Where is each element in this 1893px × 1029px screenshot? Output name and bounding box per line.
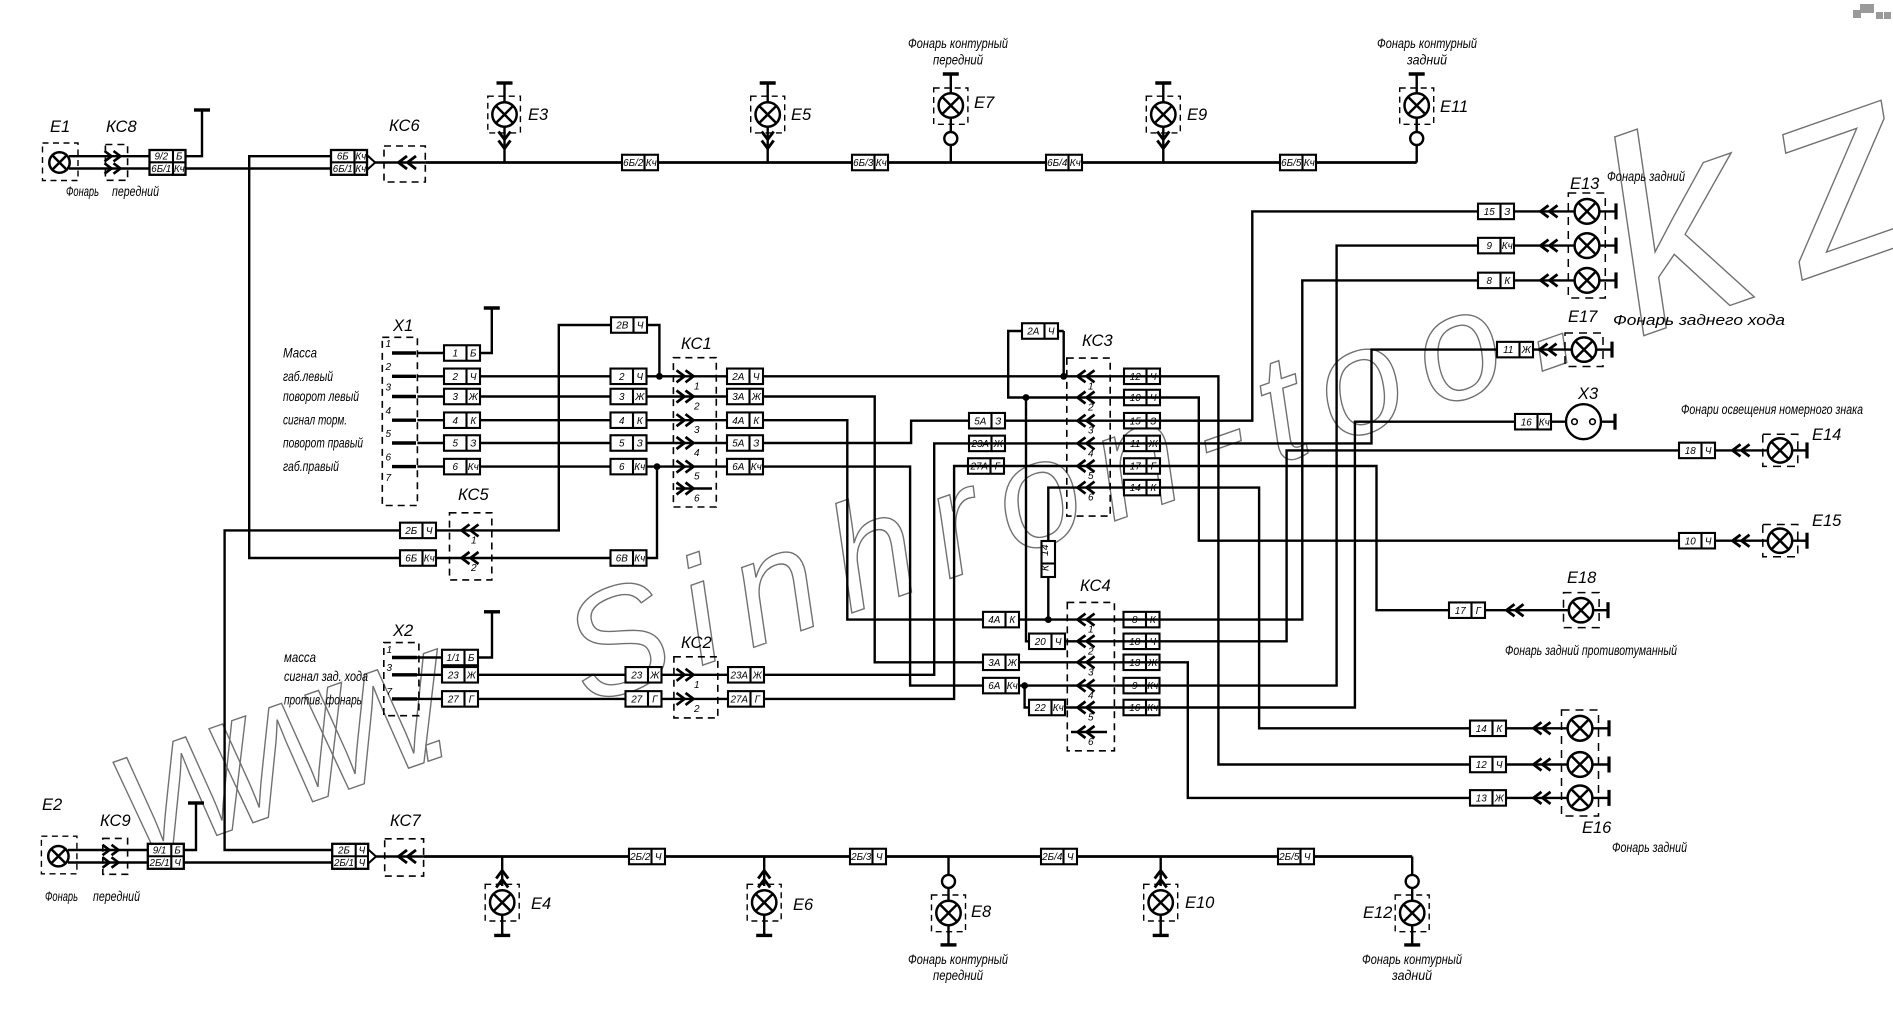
svg-text:3: 3 (387, 663, 393, 674)
connector chevron E14 (1733, 444, 1750, 456)
svg-text:Х1: Х1 (392, 317, 413, 335)
svg-text:2Б: 2Б (404, 526, 417, 537)
svg-text:сигнал торм.: сигнал торм. (283, 412, 347, 428)
wire label 13 Ж (E16) (1470, 790, 1506, 806)
lamp E12 dashed box (1395, 895, 1429, 932)
svg-text:Фонарь контурный: Фонарь контурный (1362, 951, 1462, 967)
connector chevron E13.3 (1541, 274, 1558, 286)
svg-text:3: 3 (453, 392, 459, 403)
svg-text:Ч: Ч (359, 858, 366, 869)
svg-text:3: 3 (386, 383, 392, 394)
svg-text:Фонарь задний: Фонарь задний (1612, 839, 1687, 855)
svg-text:4А: 4А (988, 615, 1000, 626)
svg-text:5: 5 (619, 439, 625, 450)
wire label 27А Г (KC3) (968, 458, 1004, 474)
svg-text:передний: передний (933, 52, 983, 68)
wire E13.2 stub (1599, 244, 1616, 246)
svg-text:6: 6 (453, 462, 459, 473)
svg-text:Е6: Е6 (793, 896, 814, 914)
wire net 2А loop at KC3 (1008, 331, 1110, 398)
svg-text:Кч: Кч (646, 158, 657, 169)
svg-text:Кч: Кч (876, 158, 887, 169)
svg-text:Ч: Ч (876, 852, 883, 863)
wire label 3А Ж (727, 389, 763, 405)
svg-text:6Б/4: 6Б/4 (1047, 158, 1068, 169)
svg-text:2Б/5: 2Б/5 (1278, 852, 1300, 863)
lamp E5 with drop (756, 102, 780, 162)
wire E12 to ground (1411, 925, 1413, 945)
svg-text:Фонарь контурный: Фонарь контурный (908, 951, 1008, 967)
wire label 11 Ж (1124, 436, 1160, 452)
wire label 6А Кч (727, 459, 763, 475)
connector KC7 (385, 839, 424, 876)
wire label 23А Ж (KC2) (728, 667, 764, 683)
connector chevron E13.1 (1541, 205, 1558, 217)
wire label 17 Г (1124, 458, 1160, 474)
svg-text:Кч: Кч (634, 462, 645, 473)
svg-text:3: 3 (619, 392, 625, 403)
svg-text:22: 22 (1034, 703, 1046, 714)
wire label 27 Г (442, 691, 478, 707)
svg-text:габ.левый: габ.левый (283, 368, 333, 384)
svg-text:5А: 5А (974, 416, 986, 427)
svg-text:2А: 2А (1026, 327, 1039, 338)
svg-text:сигнал зад. хода: сигнал зад. хода (284, 668, 368, 684)
svg-text:задний: задний (1406, 52, 1447, 68)
connector circle E7 (944, 132, 957, 145)
svg-text:Фонарь заднего хода: Фонарь заднего хода (1613, 313, 1785, 329)
wire label 14 К (1124, 480, 1160, 496)
wire net 13 Ж (1114, 662, 1567, 798)
wire net 8 К (1114, 280, 1574, 619)
lamp E2 (48, 846, 68, 866)
svg-text:3: 3 (694, 425, 700, 436)
wire label 2А Ч (KC3) (1022, 323, 1058, 339)
ground below E4 (494, 933, 510, 935)
wire top bus 6Б (425, 161, 1416, 164)
svg-text:2: 2 (1087, 646, 1094, 657)
wire label 16 Кч (KC4) (1124, 700, 1160, 716)
connector chevron E16.3 (1534, 792, 1551, 804)
wire label 2 Ч (2nd) (611, 369, 647, 385)
wire E16.1 stub (1592, 727, 1609, 729)
wire label 6Б/3 Кч (852, 155, 888, 171)
wire label 18 Ч (KC4) (1124, 634, 1160, 650)
lamp E6 dashed box (747, 884, 781, 921)
svg-text:4: 4 (619, 416, 625, 427)
wire label 6А Кч (KC4) (983, 678, 1019, 694)
svg-text:Фонарь контурный: Фонарь контурный (1377, 35, 1477, 51)
svg-text:Б: Б (176, 152, 183, 163)
lamp E11 (1405, 93, 1429, 117)
svg-text:З: З (753, 439, 759, 450)
lamp E2 dashed box (41, 836, 77, 874)
ground below E12 (1404, 943, 1420, 945)
lamp E1 (49, 152, 69, 172)
svg-text:6А: 6А (988, 681, 1000, 692)
wire label 22 Кч (KC4) (1029, 700, 1065, 716)
wire E11 drop (1415, 118, 1417, 163)
svg-text:Ч: Ч (655, 852, 662, 863)
svg-text:Б: Б (470, 349, 477, 360)
wire net 4 К row (417, 420, 1114, 619)
wire net 12 Ч (1110, 376, 1568, 764)
wire E16.2 stub (1592, 763, 1609, 765)
wire label 6В Кч (611, 550, 647, 566)
lamp E10 with drop (1149, 857, 1173, 915)
svg-text:4: 4 (694, 448, 700, 459)
wire E4 to ground (501, 915, 503, 936)
lamp E18 (1569, 598, 1593, 622)
svg-text:Кч: Кч (1007, 681, 1018, 692)
wire label 6 Кч (2nd) (611, 459, 647, 475)
lamp E15 dashed box (1763, 525, 1798, 557)
svg-text:9: 9 (1487, 241, 1493, 252)
ground at E2 (188, 803, 204, 805)
lamp E6 with drop (752, 857, 776, 915)
wire E6 to ground (763, 915, 765, 936)
wire label 6Б/4 Кч (1046, 155, 1082, 171)
junction net 4А/14 (1045, 616, 1052, 623)
lamp E16 dashed box (1562, 710, 1599, 816)
svg-text:КС5: КС5 (458, 486, 489, 504)
wire label 14 К (vertical) (1039, 541, 1055, 577)
wire E16.3 stub (1592, 797, 1609, 799)
ground at X2 pin1 (484, 612, 500, 614)
wire E12 drop (1411, 857, 1413, 902)
wire E2 white (9/1) to ground (68, 805, 196, 850)
ground above E3 (497, 83, 513, 103)
svg-text:Кч: Кч (174, 164, 185, 175)
wire net 5 З row (417, 421, 1110, 443)
svg-text:Ч: Ч (636, 372, 643, 383)
svg-text:против. фонарь: против. фонарь (284, 692, 362, 708)
svg-text:Ч: Ч (753, 372, 760, 383)
svg-text:3А: 3А (732, 392, 744, 403)
wire label 6Б/2 Кч (622, 155, 658, 171)
svg-text:Ч: Ч (1055, 637, 1062, 648)
wire label 3 Ж (2nd) (611, 389, 647, 405)
wire label 16 Кч (X3) (1515, 414, 1551, 430)
junction net 2А (1060, 373, 1067, 380)
wire label 3 Ж (444, 389, 480, 405)
wire E1 brown 6Б/1 (69, 167, 331, 169)
wire label 10 Ч (E15) (1679, 533, 1715, 549)
wire label 8 К (E13) (1478, 273, 1514, 289)
ground at E1 (194, 110, 210, 112)
connector chevron E17 (1540, 344, 1557, 356)
lamp E3 with drop (492, 102, 516, 162)
wire E8 drop (947, 857, 949, 902)
wire label 2 Ч (444, 369, 480, 385)
svg-text:Фонари освещения номерного зна: Фонари освещения номерного знака (1681, 402, 1863, 417)
svg-text:6Б: 6Б (337, 152, 349, 163)
wire label 9/1 Б / 2Б/1 Ч (148, 844, 184, 869)
wire net 22 Кч branch (1025, 686, 1115, 708)
wire label 15 З (E13) (1478, 204, 1514, 220)
wire net 9 Кч (1114, 246, 1574, 686)
wire E10 to ground (1159, 915, 1161, 936)
wire label 3А Ж (KC4) (983, 655, 1019, 671)
terminal X3 (1613, 414, 1616, 430)
svg-text:9/2: 9/2 (154, 152, 168, 163)
svg-text:Ж: Ж (1521, 345, 1532, 356)
svg-text:3А: 3А (988, 658, 1000, 669)
wire bottom bus 2Б (424, 855, 1413, 858)
lamp E5 dashed box (751, 96, 785, 133)
wire label 2Б/4 Ч (1041, 849, 1077, 865)
wire label 6Б/5 Кч (1280, 155, 1316, 171)
wire label 17 Г (E18) (1449, 602, 1485, 618)
svg-text:6А: 6А (732, 462, 744, 473)
connector chevron E18 (1507, 604, 1524, 616)
svg-text:6: 6 (1088, 493, 1094, 504)
lamp E16.3 (1568, 786, 1593, 811)
wire label 23 Ж (442, 667, 478, 683)
svg-text:Фонарь задний противотуманный: Фонарь задний противотуманный (1505, 642, 1677, 658)
wire E1 white (9/2) to ground (69, 112, 202, 156)
lamp E13.3 (1575, 268, 1600, 293)
connector KC2 (674, 657, 718, 718)
svg-text:16: 16 (1521, 417, 1532, 428)
wire label 1/1 Б (442, 650, 478, 666)
wire net 17 Г (1110, 466, 1569, 610)
wire net 15 З (1110, 211, 1575, 420)
wire label 11 Ж (E17) (1497, 342, 1533, 358)
terminal E14 (1805, 442, 1808, 458)
ground above E9 (1155, 83, 1171, 103)
wire label 10 Ч (1124, 390, 1160, 406)
terminal E16.3 (1607, 790, 1610, 806)
svg-text:Кч: Кч (634, 554, 645, 565)
svg-text:Фонарь контурный: Фонарь контурный (908, 35, 1008, 51)
svg-text:1: 1 (1088, 625, 1094, 636)
junction net 6А/22 (1021, 682, 1028, 689)
svg-text:13: 13 (1476, 794, 1487, 805)
svg-text:2Б: 2Б (337, 845, 350, 856)
wire label 5 З (444, 435, 480, 451)
svg-text:габ.правый: габ.правый (283, 458, 339, 474)
ground below E6 (756, 933, 772, 935)
connector KC4 (1067, 602, 1114, 750)
svg-text:Е15: Е15 (1812, 512, 1842, 530)
wire label 13 Ж (KC4) (1124, 655, 1160, 671)
terminal E17 (1610, 342, 1613, 358)
svg-text:1: 1 (694, 381, 700, 392)
svg-text:Г: Г (755, 695, 761, 706)
lamp E15 (1768, 529, 1792, 553)
svg-text:5: 5 (694, 472, 700, 483)
wire E7 drop (950, 118, 952, 163)
wire label 5А З (KC3) (969, 413, 1005, 429)
connector KC6 (384, 146, 425, 182)
svg-text:Кч: Кч (1053, 703, 1064, 714)
svg-text:3: 3 (1088, 667, 1094, 678)
ground above E7 (943, 74, 959, 94)
svg-text:К: К (1039, 564, 1051, 571)
wire label 2Б Ч (400, 523, 436, 539)
lamp E9 dashed box (1146, 96, 1180, 133)
svg-text:2А: 2А (731, 372, 744, 383)
junction net 2/2В (656, 373, 663, 380)
merge arrow before KC7 (368, 849, 376, 863)
wire label 9 Кч (E13) (1478, 238, 1514, 254)
svg-text:Е10: Е10 (1185, 894, 1215, 912)
svg-text:Е17: Е17 (1568, 308, 1598, 326)
lamp E1 dashed box (43, 143, 79, 181)
svg-text:Кч: Кч (468, 462, 479, 473)
svg-text:КС2: КС2 (681, 634, 712, 652)
lamp E18 dashed box (1564, 593, 1600, 628)
svg-text:6В: 6В (616, 554, 628, 565)
svg-text:2: 2 (470, 563, 477, 574)
svg-text:20: 20 (1034, 637, 1046, 648)
svg-text:23А: 23А (729, 670, 748, 681)
connector X2 pin stubs (392, 658, 417, 699)
svg-text:17: 17 (1455, 606, 1466, 617)
wire label 4 К (444, 412, 480, 428)
svg-text:Е8: Е8 (971, 903, 992, 921)
wire label 5А З (727, 435, 763, 451)
svg-text:Ч: Ч (1048, 327, 1055, 338)
svg-text:27: 27 (630, 695, 642, 706)
ground below E10 (1153, 933, 1169, 935)
wire net 27 Г row (417, 466, 1110, 699)
svg-text:Б: Б (174, 845, 181, 856)
wire label 23 Ж (2nd) (626, 667, 662, 683)
svg-text:12: 12 (1476, 760, 1487, 771)
wire X3 stub (1601, 421, 1615, 423)
svg-text:2: 2 (693, 704, 700, 715)
lamp E13.1 (1575, 199, 1600, 224)
svg-text:23: 23 (447, 670, 459, 681)
svg-text:Кч: Кч (1539, 417, 1550, 428)
lamp E14 dashed box (1763, 434, 1798, 466)
connector KC8 (105, 145, 128, 181)
terminal E13.3 (1614, 272, 1617, 288)
svg-text:4: 4 (1088, 691, 1094, 702)
wire label 18 Ч (E14) (1679, 443, 1715, 459)
svg-text:З: З (1504, 207, 1510, 218)
lamp E7 dashed box (934, 88, 968, 124)
wire label 4А К (727, 412, 763, 428)
junction net 10/20 (1023, 394, 1030, 401)
junction 6В on net 6 (654, 463, 661, 470)
svg-text:Кч: Кч (1502, 241, 1513, 252)
svg-text:2: 2 (693, 402, 700, 413)
svg-text:КС8: КС8 (106, 118, 137, 136)
wire net 18 Ч (1114, 450, 1767, 641)
wire merge to KC6 (375, 161, 425, 163)
lamp E16.2 (1568, 752, 1593, 777)
svg-text:Кч: Кч (355, 152, 366, 163)
svg-text:Ж: Ж (634, 392, 645, 403)
svg-text:Кч: Кч (355, 164, 366, 175)
svg-text:2Б/1: 2Б/1 (333, 858, 354, 869)
svg-text:КС7: КС7 (390, 812, 421, 830)
wire label 2Б/5 Ч (1278, 849, 1314, 865)
svg-text:Кч: Кч (751, 462, 762, 473)
connector chevron E16.1 (1534, 722, 1551, 734)
svg-text:Фонарь: Фонарь (45, 888, 78, 904)
svg-text:Ч: Ч (637, 321, 644, 332)
wire E8 to ground (947, 925, 949, 945)
svg-text:6Б/1: 6Б/1 (333, 164, 353, 175)
svg-text:2Б/3: 2Б/3 (850, 852, 872, 863)
wire label 12 Ч (E16) (1470, 757, 1506, 773)
decor gray marks (1853, 4, 1891, 19)
ground above E5 (760, 83, 776, 103)
svg-text:Е12: Е12 (1363, 904, 1392, 922)
connector X2 dashed box (384, 643, 419, 716)
svg-text:18: 18 (1685, 446, 1696, 457)
lamp E9 with drop (1151, 102, 1175, 162)
svg-text:Е7: Е7 (974, 94, 995, 112)
svg-text:З: З (637, 439, 643, 450)
svg-text:2Б/2: 2Б/2 (629, 852, 651, 863)
wire label 6 Кч (444, 459, 480, 475)
wire label 2В Ч (611, 317, 647, 333)
svg-text:6: 6 (386, 453, 392, 464)
connector X1 pin numbers 1-7 (385, 339, 392, 484)
lamp E17 dashed box (1565, 333, 1603, 367)
wire net 11 Ж (1110, 350, 1572, 444)
svg-text:6Б/3: 6Б/3 (853, 158, 874, 169)
svg-text:Ж: Ж (752, 670, 763, 681)
wire net 3 Ж row (417, 397, 1114, 663)
wire label 27 Г (2nd) (626, 691, 662, 707)
svg-text:1/1: 1/1 (446, 653, 460, 664)
wire E17 stub (1596, 348, 1612, 350)
wire label 1 Б (444, 345, 480, 361)
terminal E18 (1606, 602, 1609, 618)
wire net 6 Кч row (417, 467, 1114, 686)
wire label 8 К (KC4) (1124, 612, 1160, 628)
svg-text:2В: 2В (615, 321, 628, 332)
svg-text:11: 11 (1503, 345, 1513, 356)
svg-text:Е16: Е16 (1582, 819, 1612, 837)
wire label 4А К (KC4) (983, 612, 1019, 628)
connector X1 dashed box (382, 337, 417, 505)
svg-text:4: 4 (453, 416, 459, 427)
connector KC3 (1067, 358, 1110, 516)
lamp E12 (1400, 901, 1424, 925)
wire E13.1 stub (1599, 210, 1616, 212)
wire net 1/1 Б to ground (417, 614, 492, 658)
svg-text:27: 27 (447, 695, 459, 706)
wire label 2Б/2 Ч (629, 849, 665, 865)
svg-text:14: 14 (1476, 724, 1487, 735)
lamp E13 dashed box (1568, 193, 1605, 298)
svg-text:2: 2 (1087, 403, 1094, 414)
svg-text:Е1: Е1 (50, 118, 70, 136)
wire label 23А Ж (KC3) (969, 436, 1005, 452)
wire net 14 К (1110, 488, 1568, 729)
lamp E3 dashed box (488, 96, 521, 133)
connector circle E12 (1406, 875, 1419, 888)
svg-text:7: 7 (386, 473, 392, 484)
svg-text:6Б/2: 6Б/2 (623, 158, 644, 169)
svg-text:З: З (995, 416, 1001, 427)
svg-text:Фонарь задний: Фонарь задний (1607, 168, 1685, 184)
svg-text:Г: Г (469, 695, 475, 706)
svg-text:5А: 5А (732, 439, 744, 450)
wire label 20 Ч (KC4) (1029, 634, 1065, 650)
wire net 23 Ж row (417, 443, 1110, 674)
svg-text:6: 6 (1088, 737, 1094, 748)
lamp E14 (1768, 438, 1792, 462)
svg-text:Ч: Ч (1067, 852, 1074, 863)
